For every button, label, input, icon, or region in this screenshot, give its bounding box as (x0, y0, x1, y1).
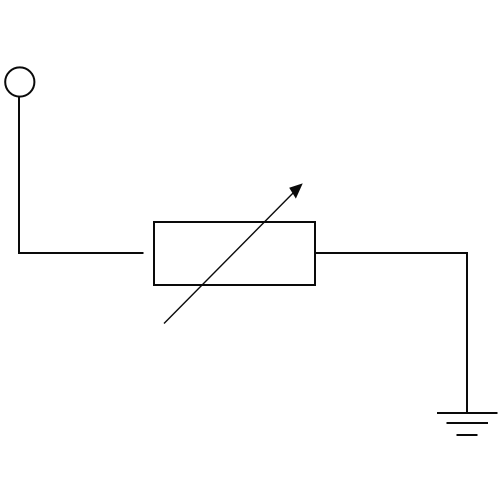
resistor R1 body (rectangular box) (154, 222, 315, 285)
wire: left horizontal toward resistor (18, 252, 144, 254)
arrow shaft (variable adjustment, 45 degrees) (164, 186, 301, 324)
wire: left vertical from terminal down (18, 97, 20, 254)
wire: right vertical down to ground (466, 252, 468, 413)
ground symbol: top bar (437, 412, 498, 414)
arrowhead (290, 184, 302, 198)
terminal T1 (open circle) (5, 67, 34, 96)
ground symbol: bottom bar (457, 434, 478, 436)
wire: right horizontal from resistor (315, 252, 468, 254)
ground symbol: middle bar (447, 422, 489, 424)
